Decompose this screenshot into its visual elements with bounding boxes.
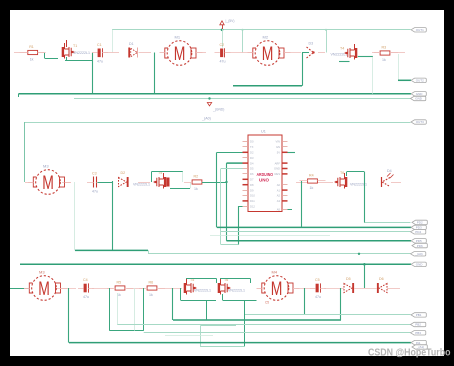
svg-text:VN2222L1: VN2222L1: [73, 51, 90, 55]
svg-text:PD5: PD5: [416, 239, 422, 243]
svg-text:CSDN @HopeTurbo: CSDN @HopeTurbo: [368, 348, 451, 359]
svg-text:M3: M3: [43, 164, 49, 169]
svg-text:R3: R3: [382, 46, 387, 50]
svg-text:A3: A3: [277, 199, 281, 203]
svg-text:GN: GN: [276, 145, 280, 149]
svg-text:GND: GND: [415, 97, 423, 101]
svg-text:D1: D1: [129, 42, 134, 46]
svg-text:_(A0): _(A0): [414, 252, 422, 256]
svg-text:A5: A5: [277, 207, 281, 211]
svg-text:A1: A1: [277, 188, 281, 192]
svg-text:D6: D6: [379, 277, 384, 281]
svg-text:M2: M2: [263, 35, 269, 40]
svg-text:PD4: PD4: [415, 230, 421, 234]
svg-text:D11: D11: [250, 199, 255, 203]
svg-text:R4: R4: [309, 174, 314, 178]
svg-text:GND: GND: [416, 263, 424, 267]
svg-text:D12: D12: [250, 205, 255, 209]
svg-text:D4: D4: [250, 161, 254, 165]
svg-text:R5: R5: [117, 281, 122, 285]
svg-text:IN1: IN1: [416, 341, 421, 345]
svg-text:1k: 1k: [149, 293, 153, 297]
svg-text:D9: D9: [250, 188, 254, 192]
svg-text:_(A0): _(A0): [201, 117, 211, 121]
svg-text:T6: T6: [340, 171, 344, 175]
svg-text:M: M: [42, 173, 54, 194]
svg-text:M: M: [38, 279, 50, 300]
svg-text:PD2: PD2: [417, 221, 423, 225]
svg-text:PB1: PB1: [416, 313, 422, 317]
svg-text:PB2: PB2: [415, 323, 421, 327]
svg-text:47u: 47u: [315, 295, 321, 299]
svg-text:PB3: PB3: [415, 331, 421, 335]
svg-text:OUT2: OUT2: [416, 79, 424, 83]
svg-text:A2: A2: [277, 194, 281, 198]
svg-text:1k: 1k: [30, 58, 34, 62]
svg-text:R1: R1: [29, 45, 34, 49]
svg-text:R2: R2: [194, 175, 199, 179]
svg-text:T1: T1: [73, 44, 77, 48]
svg-text:D2: D2: [121, 171, 126, 175]
svg-text:D5: D5: [250, 167, 254, 171]
svg-text:D3: D3: [309, 42, 314, 46]
svg-text:D5: D5: [346, 277, 351, 281]
svg-text:ARF: ARF: [275, 161, 281, 165]
svg-text:PD3: PD3: [416, 226, 422, 230]
svg-text:M1: M1: [175, 35, 181, 40]
svg-text:M: M: [174, 44, 186, 65]
svg-text:D2: D2: [250, 151, 254, 155]
svg-text:47u: 47u: [220, 60, 226, 64]
svg-text:R6: R6: [149, 281, 154, 285]
svg-text:D4: D4: [387, 169, 392, 173]
svg-text:C2: C2: [220, 43, 225, 47]
svg-text:M3: M3: [39, 270, 45, 275]
svg-text:TX: TX: [250, 145, 254, 149]
svg-text:PD6: PD6: [417, 244, 423, 248]
svg-text:VIN: VIN: [276, 140, 281, 144]
svg-text:C1: C1: [97, 43, 102, 47]
svg-text:M4: M4: [272, 270, 278, 275]
svg-text:OUT1: OUT1: [416, 28, 424, 32]
svg-text:T4: T4: [340, 47, 344, 51]
svg-text:C3: C3: [92, 172, 97, 176]
svg-text:5V: 5V: [277, 151, 280, 155]
svg-text:GND: GND: [416, 92, 424, 96]
svg-text:C5: C5: [315, 278, 320, 282]
svg-text:47u: 47u: [92, 190, 98, 194]
svg-text:|_(5V): |_(5V): [225, 19, 234, 23]
svg-text:VN2222L1: VN2222L1: [133, 183, 150, 187]
svg-text:D6: D6: [250, 172, 254, 176]
svg-text:A0: A0: [277, 183, 281, 187]
svg-text:ARDUINO: ARDUINO: [257, 172, 274, 177]
svg-text:VN2222L1: VN2222L1: [194, 289, 211, 293]
svg-text:GND: GND: [274, 167, 280, 171]
svg-text:D8: D8: [250, 183, 254, 187]
svg-text:D10: D10: [250, 194, 255, 198]
svg-text:D7: D7: [250, 178, 254, 182]
svg-text:RES: RES: [274, 172, 280, 176]
svg-text:47u: 47u: [97, 60, 103, 64]
svg-text:C4: C4: [83, 278, 88, 282]
svg-text:M: M: [271, 279, 283, 300]
svg-text:OUT3: OUT3: [416, 120, 424, 124]
svg-text:M: M: [262, 44, 274, 65]
svg-text:UNO: UNO: [259, 177, 270, 182]
svg-text:C5: C5: [265, 301, 269, 305]
svg-text:1k: 1k: [194, 187, 198, 191]
svg-text:1k: 1k: [382, 58, 386, 62]
svg-text:D3: D3: [250, 156, 254, 160]
svg-text:1k: 1k: [310, 186, 314, 190]
svg-text:VN2222L1: VN2222L1: [228, 289, 245, 293]
svg-text:U1: U1: [261, 130, 266, 134]
svg-text:47u: 47u: [83, 295, 89, 299]
svg-text:_(GND): _(GND): [212, 108, 224, 112]
svg-text:D0: D0: [250, 140, 254, 144]
